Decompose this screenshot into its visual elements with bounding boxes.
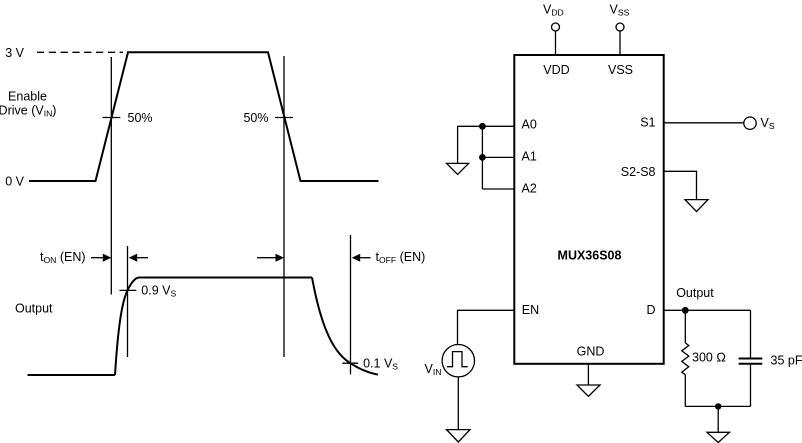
junction dot A1 [479,154,486,161]
wire to resistor [684,310,686,343]
svg-text:A1: A1 [522,150,537,164]
wire A1 [482,156,514,158]
wire rail to ground [717,406,719,432]
svg-text:MUX36S08: MUX36S08 [558,249,622,263]
arrow left to L2 [136,257,148,259]
resistor R 300 ohm [682,343,689,375]
svg-text:50%: 50% [128,111,153,125]
50% tick left [102,117,120,119]
svg-text:300 Ω: 300 Ω [692,350,726,364]
IC U1 MUX36S08 body [514,55,663,364]
svg-text:VSS: VSS [610,3,630,18]
ground (VIN) [447,430,471,442]
wire to capacitor [750,310,752,358]
svg-text:0.1 VS: 0.1 VS [363,356,398,371]
output waveform falling exponential [312,278,378,375]
measurement line L1 (50% rising) [110,57,112,295]
waveform: enable drive trapezoid [29,52,379,181]
junction dot D [682,307,689,314]
wire capacitor to rail [750,365,752,407]
wire VDD stub [555,31,557,55]
junction dot A0 [479,123,486,130]
svg-text:VSS: VSS [608,63,633,77]
wire resistor to rail [684,375,686,407]
0.9Vs tick [120,289,137,291]
wire S1 [664,122,744,124]
svg-text:0 V: 0 V [5,175,24,189]
wire D output rail [664,309,751,311]
output waveform rising exponential [115,278,312,376]
svg-text:0.9 VS: 0.9 VS [141,283,176,298]
svg-text:tON (EN): tON (EN) [40,250,86,265]
3V dashed reference line [37,51,123,53]
wire VIN to ground [457,377,459,430]
arrow right to L1 [91,257,103,259]
source VIN circle [442,345,474,377]
svg-text:Drive (VIN): Drive (VIN) [0,104,56,119]
wire address bus [481,126,483,189]
ground (address pins) [447,163,469,174]
svg-text:3 V: 3 V [5,46,24,60]
wire to ground (address) [457,126,459,163]
arrow left to L4 [359,257,371,259]
measurement line L4 (0.1Vs) [350,235,352,375]
svg-text:GND: GND [577,345,605,359]
ground (GND pin) [577,385,600,396]
ground (load) [707,432,729,442]
svg-text:D: D [646,303,655,317]
VDD terminal circle [552,23,560,31]
svg-text:VDD: VDD [543,63,569,77]
measurement line L3 (50% falling) [283,56,285,357]
output waveform baseline [28,374,116,376]
svg-text:A0: A0 [522,118,537,132]
svg-text:VDD: VDD [543,3,564,18]
capacitor C 35 pF [739,359,763,364]
svg-text:VIN: VIN [425,362,442,377]
svg-text:Output: Output [15,302,53,316]
wire EN [458,310,515,344]
pulse symbol [447,352,468,367]
ground (S2-S8) [685,200,708,212]
svg-text:50%: 50% [243,111,268,125]
svg-text:35 pF: 35 pF [771,353,802,367]
svg-text:Output: Output [676,286,714,300]
svg-text:Enable: Enable [8,90,47,104]
svg-text:tOFF (EN): tOFF (EN) [376,250,426,265]
wire S2-S8 [664,171,697,199]
wire VSS stub [619,31,621,55]
svg-text:VS: VS [761,116,775,131]
wire bottom rail [685,405,750,407]
VSS terminal circle [616,23,624,31]
50% tick right [275,117,293,119]
svg-text:EN: EN [522,303,539,317]
wire A2 [482,188,514,190]
junction dot bottom rail [715,403,721,409]
wire A0 [458,125,514,127]
measurement line L2 (0.9Vs) [127,246,129,357]
svg-text:A2: A2 [522,181,537,195]
wire GND stub [587,364,589,385]
0.1Vs tick [342,362,358,364]
VS terminal circle [744,117,756,129]
svg-text:S2-S8: S2-S8 [621,165,656,179]
svg-text:S1: S1 [640,116,655,130]
arrow right to L3 [257,257,276,259]
